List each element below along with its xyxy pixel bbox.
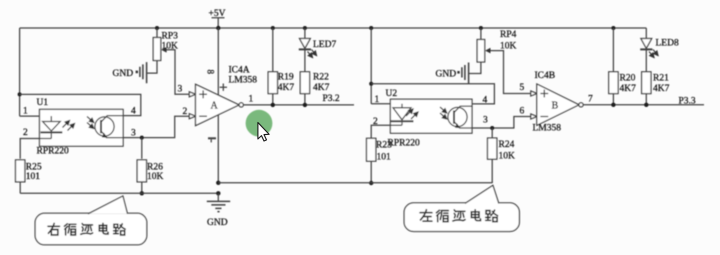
svg-text:2: 2	[23, 128, 28, 138]
svg-text:RP3: RP3	[162, 32, 179, 42]
op-amp U2B (IC4B LM358)	[520, 71, 594, 134]
LED8	[640, 28, 679, 58]
phototransistor inside U1	[87, 116, 123, 138]
resistor R22	[300, 49, 329, 107]
svg-text:3: 3	[178, 85, 183, 95]
svg-text:R24: R24	[499, 140, 515, 150]
LED inside U2	[391, 104, 419, 125]
svg-text:R25: R25	[26, 162, 42, 172]
wire U1 pin1	[20, 115, 52, 117]
ground GND (right, bar style)	[436, 63, 469, 85]
power +5V	[209, 9, 226, 30]
wire RP3 wiper to pin3	[168, 50, 189, 95]
wire U2 pin1	[371, 103, 402, 105]
svg-text:4K7: 4K7	[653, 84, 670, 94]
wire op-amp A power vertical	[217, 28, 219, 183]
svg-text:6: 6	[520, 107, 525, 117]
wire U1 pin3 to op-amp pin2	[123, 116, 189, 137]
svg-text:GND: GND	[207, 218, 228, 228]
wire U1 left vertical from +5V	[19, 28, 21, 116]
svg-text:1: 1	[375, 95, 380, 105]
svg-text:7: 7	[588, 95, 593, 105]
resistor R26	[137, 138, 163, 196]
wire U2 pin2	[371, 125, 402, 138]
svg-text:4: 4	[483, 96, 488, 106]
resistor R19	[268, 26, 294, 107]
svg-text:R26: R26	[147, 162, 163, 172]
potentiometer RP4	[469, 26, 517, 74]
LED inside U1	[41, 116, 75, 138]
resistor R23	[367, 138, 393, 185]
svg-text:R22: R22	[313, 73, 329, 83]
op-amp U1A (IC4A LM358)	[178, 66, 258, 143]
svg-text:R21: R21	[653, 74, 669, 84]
wire top +5V rail	[20, 27, 647, 29]
svg-text:8: 8	[206, 70, 216, 75]
svg-text:U1: U1	[37, 98, 49, 108]
svg-text:4K7: 4K7	[313, 83, 330, 93]
svg-text:4K7: 4K7	[620, 84, 637, 94]
svg-text:IC4A: IC4A	[229, 66, 250, 76]
cursor highlight green circle	[246, 110, 273, 137]
phototransistor inside U2	[440, 106, 472, 128]
svg-text:IC4B: IC4B	[535, 71, 556, 81]
wire bottom-left ground rail	[20, 192, 218, 194]
svg-text:10K: 10K	[147, 172, 164, 182]
text left-tracking-circuit chinese	[420, 210, 497, 222]
svg-text:P3.2: P3.2	[323, 94, 340, 104]
potentiometer RP3	[147, 26, 179, 73]
svg-text:101: 101	[26, 172, 41, 182]
node U2 pin3 / R24 junction	[490, 126, 494, 130]
svg-text:RPR220: RPR220	[388, 139, 420, 149]
svg-text:LM358: LM358	[533, 124, 562, 134]
svg-text:4: 4	[131, 107, 136, 117]
wire bottom-right ground rail	[218, 182, 492, 184]
svg-text:4K7: 4K7	[278, 83, 295, 93]
node U2 pin4 junction	[369, 82, 373, 86]
svg-text:2: 2	[183, 107, 188, 117]
callout left-tracking label	[404, 185, 519, 231]
svg-text:3: 3	[483, 116, 488, 126]
wire op-amp B output to P3.3	[583, 104, 704, 106]
svg-text:R23: R23	[376, 141, 392, 151]
wire U2 left vertical	[369, 26, 373, 30]
resistor R24	[488, 128, 516, 183]
text right-tracking-circuit chinese	[48, 223, 125, 234]
wire U1 pin4 loop	[20, 94, 141, 115]
svg-text:U2: U2	[386, 89, 398, 99]
mouse cursor	[258, 123, 269, 142]
optocoupler U2 box	[390, 99, 472, 133]
wire op-amp A output to P3.2	[243, 104, 354, 106]
node U1 pin4 junction	[18, 92, 22, 96]
svg-text:A: A	[211, 101, 219, 112]
svg-text:10K: 10K	[499, 152, 516, 162]
svg-text:P3.3: P3.3	[679, 97, 696, 107]
svg-text:GND: GND	[113, 69, 134, 79]
LED7	[299, 26, 337, 58]
svg-text:B: B	[552, 101, 559, 112]
svg-text:R20: R20	[620, 74, 636, 84]
svg-text:101: 101	[377, 153, 392, 163]
svg-text:RPR220: RPR220	[37, 147, 69, 157]
ground GND (left, bar style)	[113, 62, 147, 83]
svg-text:1: 1	[23, 107, 28, 117]
svg-text:LED7: LED7	[313, 40, 336, 50]
svg-text:1: 1	[249, 95, 254, 105]
svg-text:LM358: LM358	[229, 76, 258, 86]
wire RP4 wiper to pin5	[492, 51, 531, 94]
node U1 pin3 / R26 junction	[140, 136, 144, 140]
callout right-tracking label	[35, 196, 147, 245]
resistor R25	[16, 160, 42, 193]
ground GND (bottom)	[207, 193, 230, 228]
wire U1 pin2	[20, 139, 51, 159]
svg-text:LED8: LED8	[656, 39, 679, 49]
resistor R20	[609, 26, 636, 107]
svg-text:RP4: RP4	[500, 30, 517, 40]
wire U2 pin4 loop	[371, 84, 494, 104]
resistor R21	[642, 49, 670, 107]
node ground junctions	[216, 181, 220, 185]
optocoupler U1 box	[40, 109, 124, 146]
svg-text:5: 5	[520, 83, 525, 93]
wire U2 pin3 to op-amp pin6	[472, 117, 531, 129]
svg-text:GND: GND	[436, 70, 457, 80]
svg-text:R19: R19	[278, 73, 294, 83]
